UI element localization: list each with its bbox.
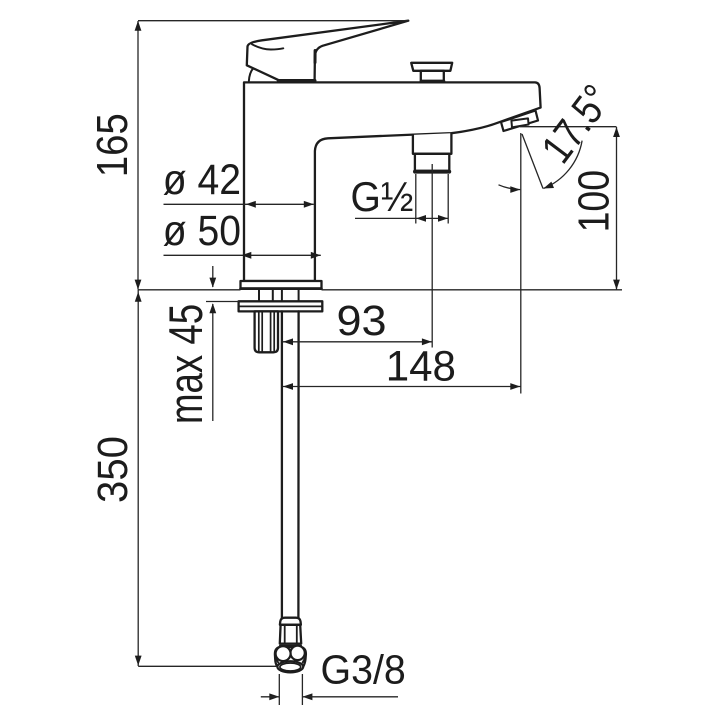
arrow dia50 left: [241, 252, 251, 259]
handle base thick line: [279, 79, 315, 82]
top reference line at handle tip: [138, 20, 408, 22]
svg-text:93: 93: [337, 297, 387, 345]
arrow G12 left: [416, 215, 426, 222]
dimension line 100 vertical: [616, 127, 618, 290]
washer top extension line: [206, 301, 239, 303]
connection nut body: [275, 647, 306, 672]
arrow 100 top up: [613, 127, 620, 137]
diverter knob stem: [421, 71, 444, 81]
svg-text:350: 350: [89, 436, 136, 503]
svg-text:max 45: max 45: [160, 304, 212, 424]
sleeve bottom band: [280, 645, 301, 647]
faucet body with spout: [244, 82, 541, 281]
arrow angle arc big end: [543, 182, 554, 189]
svg-text:ø 50: ø 50: [163, 207, 241, 255]
aerator insert: [511, 118, 528, 127]
shower outlet lower box: [415, 154, 449, 171]
sleeve inner line b: [296, 625, 298, 644]
spout outlet extension line: [520, 126, 617, 128]
deck surface line left: [138, 289, 241, 291]
base plate: [241, 281, 322, 288]
deck surface line right: [322, 289, 623, 291]
handle inner curve: [252, 44, 283, 49]
svg-text:165: 165: [88, 113, 137, 177]
G38 dimension lines: [261, 674, 398, 705]
93 dimension line: [283, 341, 432, 343]
faucet outline group: [239, 21, 541, 673]
arrow G38 right inward: [302, 693, 312, 700]
hose left line: [281, 311, 283, 618]
nut chamfer line left: [275, 658, 278, 663]
arrow 93 right: [422, 338, 432, 345]
stud thread line a: [258, 311, 260, 352]
G12 extension line left: [415, 174, 417, 224]
stud thread line d: [273, 311, 275, 352]
G38 extension line right: [301, 674, 303, 705]
nut right circle: [290, 646, 304, 660]
arrow max45 up: [209, 303, 216, 313]
G12 dimension line: [355, 217, 448, 219]
deck gap vertical b: [272, 290, 274, 302]
arrow 350 bottom down: [135, 656, 142, 666]
angle arc small: [499, 185, 521, 190]
dimension thin lines group: [138, 21, 622, 667]
angle radius line 17.5deg: [522, 134, 543, 189]
nut bottom ellipse: [277, 661, 303, 672]
mounting washer: [239, 301, 323, 311]
arrow G38 left inward: [269, 693, 279, 700]
nut bottom inner ellipse: [280, 663, 301, 671]
svg-text:100: 100: [569, 170, 619, 232]
deck gap vertical hose right: [298, 290, 300, 302]
G38 dimension line right part: [302, 696, 398, 698]
arrow 93 left: [283, 338, 293, 345]
arrow 165 bottom down: [135, 280, 142, 290]
svg-text:G½: G½: [351, 173, 414, 221]
shower outlet upper box: [413, 133, 452, 154]
nut chamfer line right: [303, 658, 306, 663]
arrow dia50 right: [311, 252, 321, 259]
base plate bottom thick edge: [241, 287, 322, 290]
svg-text:148: 148: [386, 342, 456, 389]
hose ferrule: [280, 618, 301, 625]
G38 dimension line left part: [261, 696, 280, 698]
arrow 165 top up: [135, 21, 142, 31]
diverter knob cap: [411, 63, 452, 71]
arrow max45 down: [209, 278, 216, 288]
dia42 dimension line: [164, 203, 314, 205]
arrow 148 right: [510, 383, 520, 390]
shower outlet centerline: [431, 164, 433, 348]
G12 extension line right: [447, 174, 449, 224]
arrow 148 left: [283, 383, 293, 390]
angle arc big: [543, 141, 582, 189]
sleeve inner line a: [284, 625, 286, 644]
deck gap vertical a: [258, 290, 260, 302]
deck gap vertical hose left: [281, 290, 283, 302]
stud thread line c: [270, 311, 272, 352]
aerator centerline: [520, 133, 522, 394]
max45 dimension lower segment: [212, 304, 214, 421]
hose right line: [297, 311, 300, 618]
hose end reference line: [138, 665, 276, 667]
max45 dimension upper segment: [212, 266, 214, 287]
arrow dia42 left: [246, 201, 256, 208]
handle cone left arc: [249, 69, 253, 81]
dia50 dimension line: [164, 254, 321, 256]
washer middle line: [239, 305, 323, 307]
arrowheads group: [135, 21, 620, 701]
nut left circle: [276, 646, 291, 661]
arrow G12 right: [438, 215, 448, 222]
stud thread line b: [261, 311, 263, 352]
arrow 350 top up: [135, 292, 142, 302]
arrow 100 bottom down: [613, 280, 620, 290]
handle neck thick segment: [314, 51, 317, 63]
arrow dia42 right: [304, 201, 314, 208]
arrow angle arc small end: [510, 186, 520, 193]
148 dimension line: [283, 386, 521, 388]
svg-text:ø 42: ø 42: [163, 155, 241, 203]
threaded stud: [255, 311, 278, 352]
shower outlet dark band: [415, 170, 449, 174]
G38 extension line left: [278, 674, 280, 705]
diverter knob base mark: [421, 80, 444, 83]
crimp sleeve: [280, 625, 301, 644]
lever handle: [247, 21, 408, 81]
dimension line 350 vertical: [137, 290, 139, 666]
aerator housing: [501, 111, 538, 132]
dimension line 165 vertical: [137, 21, 139, 290]
svg-text:G3/8: G3/8: [321, 647, 406, 693]
